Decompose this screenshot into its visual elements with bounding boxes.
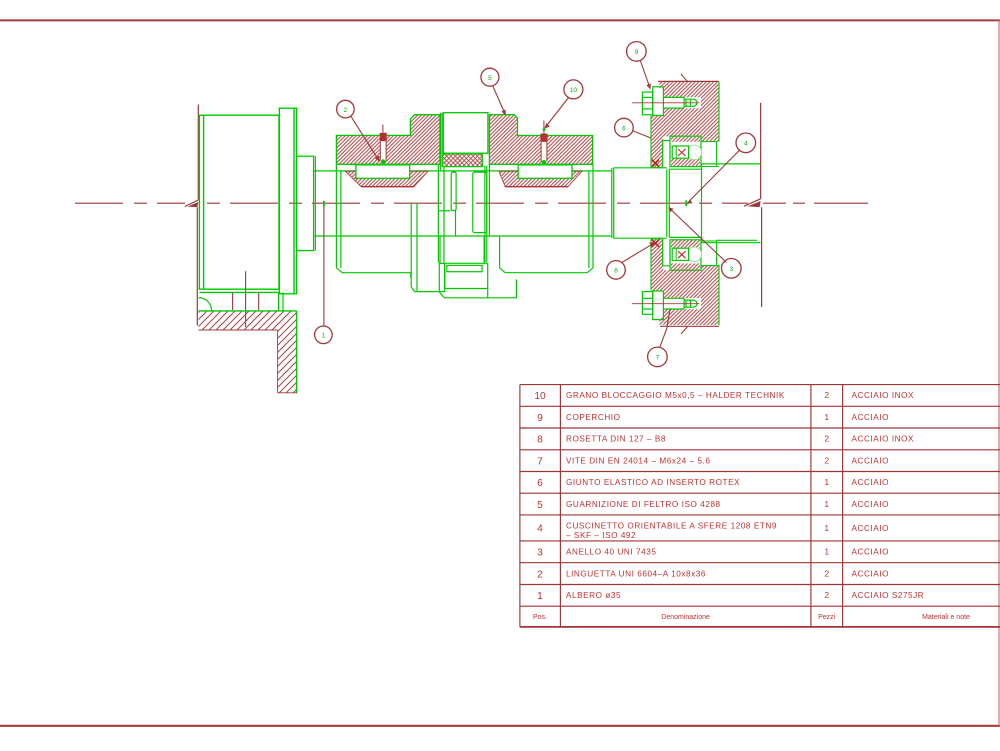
svg-text:ACCIAIO: ACCIAIO	[852, 569, 890, 578]
svg-text:ACCIAIO: ACCIAIO	[852, 478, 890, 487]
leader balloon 9	[627, 42, 651, 90]
parts table quantities	[824, 390, 829, 600]
svg-text:1: 1	[322, 333, 326, 340]
right felt seal trapezoid	[499, 171, 582, 186]
svg-text:6: 6	[622, 125, 626, 132]
svg-text:GIUNTO ELASTICO AD INSERTO ROT: GIUNTO ELASTICO AD INSERTO ROTEX	[566, 478, 740, 487]
svg-text:1: 1	[824, 412, 829, 422]
svg-text:5: 5	[488, 75, 492, 82]
left felt seal trapezoid	[345, 171, 428, 186]
center elastic insert cross-hatched	[442, 154, 482, 167]
bottom bolt axis red	[632, 303, 699, 305]
bearing housing top hatched	[651, 81, 719, 167]
svg-text:10: 10	[534, 391, 546, 402]
svg-text:6: 6	[537, 478, 543, 489]
leader balloon 3	[668, 207, 741, 278]
svg-text:2: 2	[824, 568, 829, 578]
left key	[356, 165, 410, 178]
svg-text:COPERCHIO: COPERCHIO	[566, 413, 621, 422]
shaft step after coupling	[612, 168, 702, 238]
leader balloon 4	[685, 133, 755, 206]
left hub hatched section	[336, 115, 440, 165]
svg-text:ALBERO ø35: ALBERO ø35	[566, 591, 621, 600]
top section zigzag	[681, 74, 688, 82]
svg-text:5: 5	[537, 500, 543, 511]
svg-text:10: 10	[570, 87, 578, 94]
wall hatched leg	[278, 330, 297, 393]
right break line upper	[744, 103, 761, 206]
center bottom bracket	[439, 262, 516, 297]
wall red edges	[199, 330, 297, 393]
wall fillet arc	[199, 298, 212, 311]
svg-text:2: 2	[344, 107, 348, 114]
parts table materials	[852, 391, 925, 600]
svg-text:2: 2	[824, 390, 829, 400]
svg-text:– SKF – ISO 492: – SKF – ISO 492	[566, 531, 636, 540]
svg-text:Denominazione: Denominazione	[661, 614, 710, 621]
svg-text:8: 8	[614, 268, 618, 275]
right hub hatched section	[489, 115, 592, 165]
parts table grid	[520, 385, 1000, 627]
svg-text:1: 1	[537, 591, 543, 602]
svg-text:ACCIAIO: ACCIAIO	[852, 456, 890, 465]
svg-text:ROSETTA DIN 127 – B8: ROSETTA DIN 127 – B8	[566, 435, 666, 444]
bearing housing bottom edge red	[660, 325, 719, 327]
center coupling fingers	[438, 164, 489, 262]
svg-text:1: 1	[824, 499, 829, 509]
svg-text:4: 4	[744, 141, 748, 148]
leader balloon 6	[615, 118, 651, 138]
svg-text:CUSCINETTO ORIENTABILE A SFERE: CUSCINETTO ORIENTABILE A SFERE 1208 ETN9	[566, 521, 777, 530]
svg-text:1: 1	[824, 477, 829, 487]
motor mounting bolts hidden (red)	[233, 271, 259, 327]
left break line lower	[196, 207, 198, 325]
top housing left column felt X	[652, 160, 659, 167]
leader balloon 5	[481, 68, 506, 116]
left break line upper	[185, 105, 199, 207]
bearing housing bottom outline	[651, 239, 719, 325]
leader balloon 2	[337, 100, 380, 162]
left set screw	[380, 125, 387, 172]
wall top edge	[199, 310, 297, 312]
wall right edge	[296, 311, 298, 394]
centerline right segment	[763, 202, 886, 204]
right key	[518, 165, 572, 178]
right break line lower	[761, 207, 763, 307]
motor body	[199, 115, 279, 292]
bearing housing top edge red	[658, 80, 719, 82]
bearing housing top outline	[651, 81, 719, 167]
left hub lower outline	[336, 164, 444, 291]
svg-text:ACCIAIO: ACCIAIO	[852, 500, 890, 509]
svg-text:4: 4	[537, 524, 543, 535]
svg-text:Pos.: Pos.	[533, 614, 547, 621]
parts table descriptions	[566, 391, 785, 600]
right shaft	[702, 164, 761, 243]
svg-text:VITE DIN EN 24014 – M6x24 – 5.: VITE DIN EN 24014 – M6x24 – 5.6	[566, 456, 710, 465]
svg-text:Pezzi: Pezzi	[818, 614, 836, 621]
bottom housing left column felt X	[652, 240, 659, 247]
bottom bearing box	[670, 240, 702, 270]
right hub lower outline	[484, 164, 593, 272]
motor flange plate	[279, 108, 296, 294]
svg-text:ACCIAIO: ACCIAIO	[852, 524, 890, 533]
shaft bore bottom line	[314, 235, 612, 237]
wall hatched band	[199, 311, 297, 330]
svg-text:ACCIAIO S275JR: ACCIAIO S275JR	[852, 591, 925, 600]
svg-text:ACCIAIO: ACCIAIO	[852, 413, 890, 422]
leader balloon 1	[315, 201, 333, 344]
svg-text:LINGUETTA UNI 6604–A 10x8x36: LINGUETTA UNI 6604–A 10x8x36	[566, 569, 706, 578]
leader balloon 7	[648, 310, 670, 367]
svg-text:3: 3	[729, 266, 733, 273]
svg-text:1: 1	[824, 547, 829, 557]
right break arrow	[748, 201, 761, 207]
leader balloon 10	[542, 80, 583, 133]
top bolt axis red	[632, 102, 699, 104]
svg-text:1: 1	[824, 523, 829, 533]
center spacer	[443, 113, 488, 154]
leader balloon 8	[607, 242, 656, 279]
centerline left segment	[75, 202, 185, 204]
svg-text:ACCIAIO: ACCIAIO	[852, 548, 890, 557]
svg-text:9: 9	[537, 413, 543, 424]
svg-text:2: 2	[824, 455, 829, 465]
left hub right edge lines	[441, 113, 442, 172]
motor foot	[279, 292, 283, 311]
svg-text:GUARNIZIONE DI FELTRO ISO 4288: GUARNIZIONE DI FELTRO ISO 4288	[566, 500, 721, 509]
svg-text:ACCIAIO INOX: ACCIAIO INOX	[852, 435, 915, 444]
centerline middle segment	[207, 202, 748, 204]
svg-text:GRANO BLOCCAGGIO M5x0,5 – HALD: GRANO BLOCCAGGIO M5x0,5 – HALDER TECHNIK	[566, 391, 785, 400]
right set screw	[541, 121, 548, 173]
parts table header row	[533, 614, 970, 621]
svg-text:ANELLO 40 UNI 7435: ANELLO 40 UNI 7435	[566, 548, 656, 557]
parts table position numbers	[534, 391, 546, 602]
bottom bolt	[642, 291, 696, 320]
shaft bore top line	[314, 170, 612, 172]
svg-text:7: 7	[537, 456, 543, 467]
svg-text:Materiali e note: Materiali e note	[922, 614, 970, 621]
bottom section zigzag	[681, 326, 688, 334]
svg-text:2: 2	[824, 434, 829, 444]
svg-text:2: 2	[824, 590, 829, 600]
svg-text:ACCIAIO INOX: ACCIAIO INOX	[852, 391, 915, 400]
svg-text:3: 3	[537, 548, 543, 559]
motor shaft step cylinder	[297, 156, 314, 250]
svg-text:9: 9	[635, 49, 639, 56]
top bearing box	[670, 136, 702, 166]
svg-text:7: 7	[656, 355, 660, 362]
top bolt	[642, 87, 696, 116]
svg-text:8: 8	[537, 435, 543, 446]
left break arrow	[188, 202, 199, 207]
svg-text:2: 2	[537, 569, 543, 580]
bearing housing bottom hatched	[651, 239, 719, 325]
